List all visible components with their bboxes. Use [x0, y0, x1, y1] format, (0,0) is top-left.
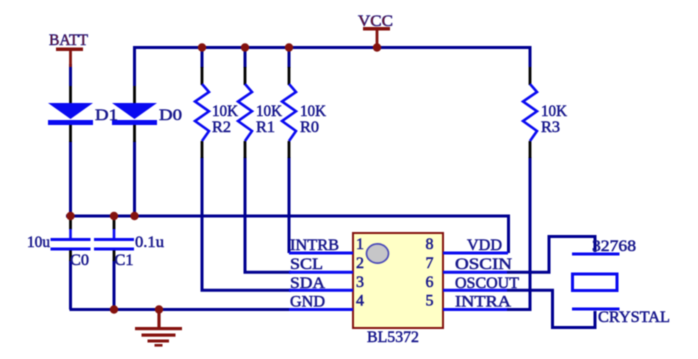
- svg-text:0.1u: 0.1u: [135, 234, 164, 251]
- svg-text:R0: R0: [300, 119, 319, 136]
- svg-text:10K: 10K: [300, 103, 326, 120]
- svg-text:R1: R1: [256, 119, 275, 136]
- svg-text:D1: D1: [95, 107, 118, 124]
- svg-text:5: 5: [426, 293, 434, 310]
- svg-text:GND: GND: [290, 294, 325, 311]
- svg-text:8: 8: [426, 236, 434, 253]
- svg-text:3: 3: [356, 274, 364, 291]
- svg-text:1: 1: [356, 236, 364, 253]
- svg-text:10K: 10K: [212, 103, 238, 120]
- svg-text:BL5372: BL5372: [367, 329, 419, 346]
- svg-text:CRYSTAL: CRYSTAL: [598, 309, 670, 326]
- svg-text:10K: 10K: [541, 103, 567, 120]
- svg-text:10u: 10u: [27, 234, 50, 251]
- svg-text:VDD: VDD: [467, 237, 502, 254]
- svg-text:D0: D0: [159, 107, 182, 124]
- svg-text:BATT: BATT: [49, 32, 88, 49]
- svg-text:INTRB: INTRB: [290, 237, 339, 254]
- svg-text:OSCOUT: OSCOUT: [455, 275, 519, 292]
- svg-text:INTRA: INTRA: [455, 294, 512, 311]
- svg-text:R2: R2: [212, 119, 231, 136]
- svg-text:SDA: SDA: [290, 275, 325, 292]
- svg-text:R3: R3: [541, 119, 560, 136]
- svg-text:C0: C0: [70, 252, 89, 269]
- svg-text:4: 4: [356, 293, 364, 310]
- svg-text:OSCIN: OSCIN: [455, 256, 513, 273]
- svg-text:VCC: VCC: [358, 13, 393, 30]
- svg-text:10K: 10K: [256, 103, 282, 120]
- svg-text:7: 7: [426, 255, 434, 272]
- svg-text:6: 6: [426, 274, 434, 291]
- svg-text:32768: 32768: [592, 238, 636, 255]
- svg-text:2: 2: [356, 255, 364, 272]
- svg-text:SCL: SCL: [290, 256, 323, 273]
- svg-text:C1: C1: [115, 252, 134, 269]
